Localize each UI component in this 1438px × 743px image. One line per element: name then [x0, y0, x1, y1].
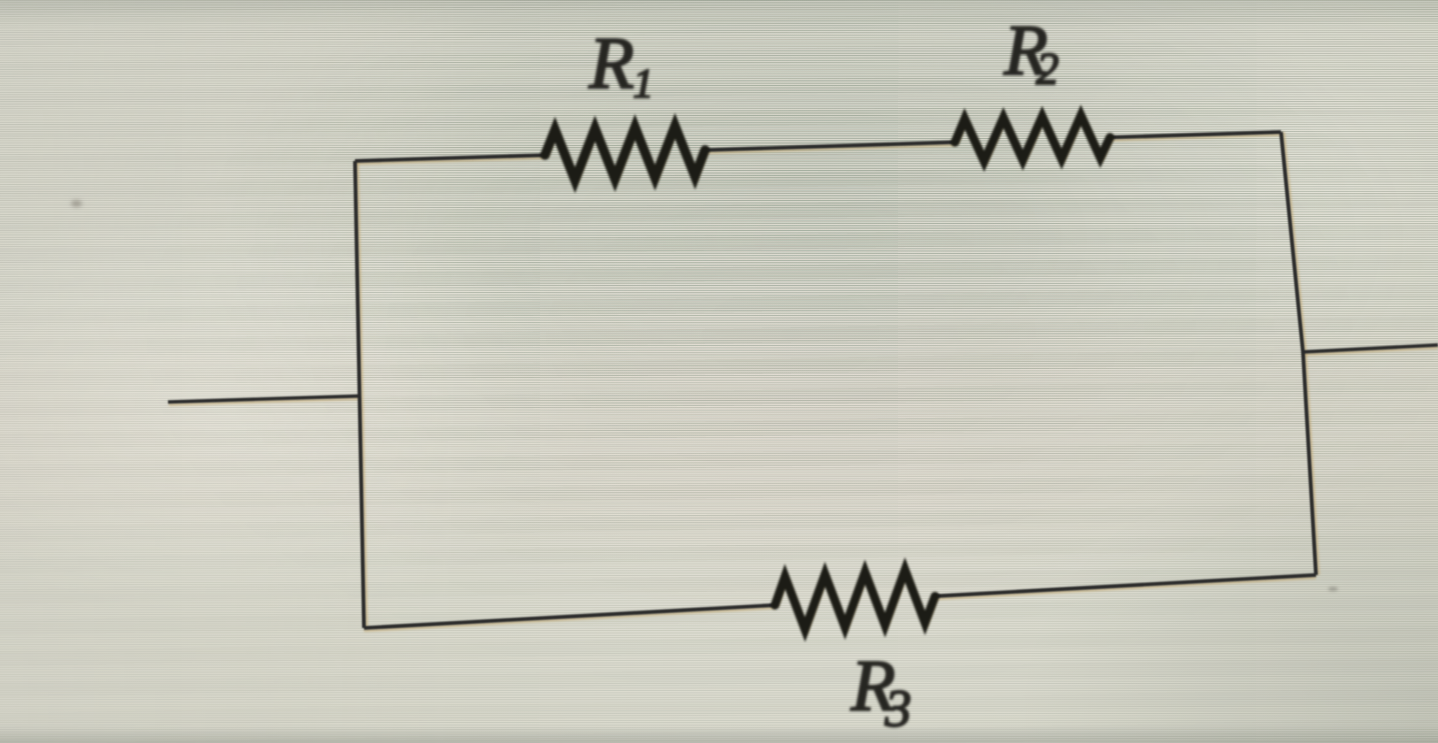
svg-text:2: 2: [1036, 43, 1059, 94]
svg-text:3: 3: [884, 680, 912, 738]
svg-text:R: R: [588, 23, 634, 105]
svg-text:1: 1: [633, 60, 654, 106]
